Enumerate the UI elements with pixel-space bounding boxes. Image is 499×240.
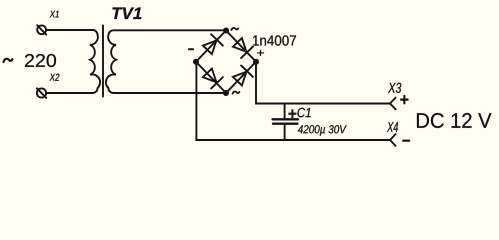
label ~ at top AC corner bbox=[231, 28, 238, 30]
wire from - corner down along bottom rail to X4 bbox=[196, 62, 390, 140]
capacitor C1 bottom lead bbox=[284, 124, 286, 140]
diode D2 (top-right edge) bbox=[231, 37, 252, 58]
diode D1 (top-left edge) bbox=[201, 34, 222, 55]
capacitor C1 top plate bbox=[273, 118, 299, 120]
diode D3 (bottom-left edge) bbox=[201, 67, 222, 88]
label 220 bbox=[25, 54, 56, 67]
junction dot right plus corner bbox=[253, 59, 259, 65]
bridge rectifier diamond wires bbox=[196, 31, 256, 94]
label C1 bbox=[298, 108, 311, 117]
terminal X2 bbox=[37, 88, 46, 98]
transformer TV1 secondary winding + wires to bridge bbox=[106, 30, 226, 93]
junction dot left minus corner bbox=[193, 59, 199, 65]
label ~ at bottom AC corner bbox=[233, 92, 240, 94]
label + at X3 bbox=[400, 95, 408, 104]
terminal X4 chevron bbox=[390, 134, 396, 146]
label ~ of mains bbox=[4, 59, 13, 62]
label 1n4007 bbox=[253, 35, 296, 45]
label - at left corner bbox=[189, 48, 193, 50]
capacitor C1 top lead bbox=[284, 104, 286, 120]
wire X1 to primary + transformer TV1 primary winding bbox=[46, 30, 100, 93]
capacitor C1 bottom plate bbox=[273, 123, 298, 125]
terminal X1 bbox=[37, 25, 46, 34]
terminal X3 chevron bbox=[390, 98, 396, 110]
junction dot top AC corner bbox=[223, 28, 229, 34]
junction dot bottom AC corner bbox=[223, 90, 229, 96]
diode D4 (bottom-right edge) bbox=[231, 65, 252, 86]
label X3 bbox=[388, 83, 401, 93]
label 4200u 30V bbox=[298, 125, 347, 136]
label - at X4 bbox=[403, 140, 409, 142]
label + at bridge right corner bbox=[257, 50, 264, 56]
label TV1 bbox=[112, 8, 141, 19]
transformer core bbox=[102, 26, 104, 97]
label X2 bbox=[49, 74, 59, 81]
label X1 bbox=[50, 11, 59, 18]
wire from + corner down to positive rail and to X3 bbox=[256, 62, 390, 104]
label DC 12 V bbox=[417, 113, 491, 128]
label X4 bbox=[387, 122, 398, 132]
label + of C1 bbox=[289, 109, 297, 117]
